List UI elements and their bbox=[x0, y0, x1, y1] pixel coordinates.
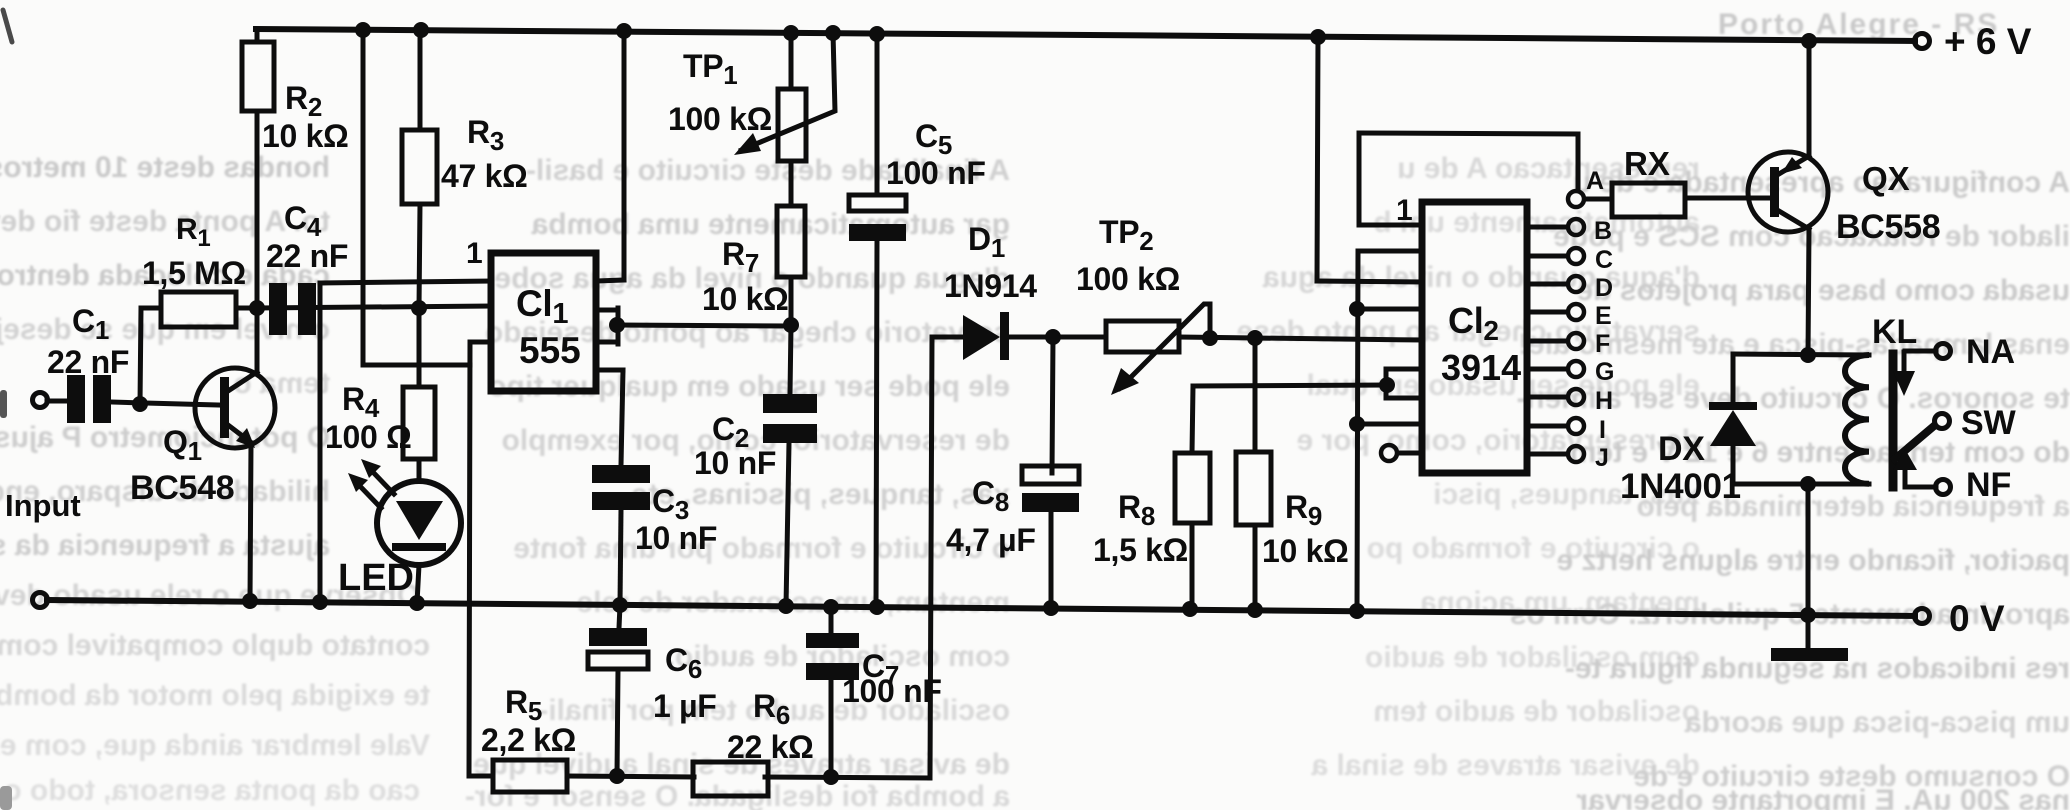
svg-text:I: I bbox=[1599, 416, 1606, 444]
svg-text:J: J bbox=[1595, 444, 1609, 472]
svg-text:1 µF: 1 µF bbox=[653, 688, 716, 724]
svg-text:1N4001: 1N4001 bbox=[1620, 467, 1741, 506]
svg-text:0 V: 0 V bbox=[1949, 598, 2005, 639]
svg-text:100 nF: 100 nF bbox=[886, 155, 986, 191]
svg-text:BC548: BC548 bbox=[130, 469, 234, 507]
svg-text:1: 1 bbox=[1396, 194, 1412, 227]
svg-text:555: 555 bbox=[519, 330, 581, 371]
svg-text:G: G bbox=[1595, 358, 1614, 386]
svg-text:C: C bbox=[1595, 246, 1613, 274]
svg-text:RX: RX bbox=[1624, 145, 1670, 182]
svg-text:22 nF: 22 nF bbox=[47, 344, 129, 380]
svg-text:B: B bbox=[1594, 217, 1612, 245]
svg-text:BC558: BC558 bbox=[1836, 208, 1940, 246]
svg-text:oscilador de audio tem: oscilador de audio tem bbox=[1373, 695, 1700, 728]
svg-text:F: F bbox=[1595, 330, 1610, 358]
svg-text:A: A bbox=[1586, 167, 1604, 195]
svg-text:10 nF: 10 nF bbox=[694, 445, 776, 481]
svg-text:usada como base para projetos: usada como base para projetos de bbox=[1577, 274, 2070, 307]
svg-text:10 kΩ: 10 kΩ bbox=[702, 281, 788, 317]
svg-text:10 kΩ: 10 kΩ bbox=[1262, 533, 1348, 569]
svg-text:100 kΩ: 100 kΩ bbox=[1076, 261, 1180, 297]
svg-text:nas 200 uA. E importante obser: nas 200 uA. E importante observar bbox=[1576, 784, 2070, 810]
svg-text:22 kΩ: 22 kΩ bbox=[727, 729, 813, 765]
svg-text:22 nF: 22 nF bbox=[266, 238, 348, 274]
svg-text:contato duplo compativel com a: contato duplo compativel com a corren bbox=[0, 629, 430, 662]
svg-text:gar automaticamente uma bomba: gar automaticamente uma bomba bbox=[531, 208, 1010, 241]
svg-text:pacitor, ficando entre alguns: pacitor, ficando entre alguns hertz e bbox=[1557, 544, 2070, 577]
svg-text:H: H bbox=[1595, 387, 1613, 415]
svg-text:1: 1 bbox=[466, 237, 482, 270]
svg-text:o circuito e formado por uma f: o circuito e formado por uma fonte bbox=[513, 532, 1010, 565]
svg-text:DX: DX bbox=[1658, 430, 1705, 468]
svg-text:3914: 3914 bbox=[1441, 347, 1521, 388]
svg-text:KL: KL bbox=[1872, 313, 1917, 351]
svg-text:E: E bbox=[1595, 302, 1612, 330]
svg-text:1,5 kΩ: 1,5 kΩ bbox=[1093, 532, 1188, 568]
svg-text:te exigida pelo motor da bomba: te exigida pelo motor da bomba. bbox=[0, 679, 430, 712]
svg-text:2,2 kΩ: 2,2 kΩ bbox=[481, 722, 576, 758]
svg-text:QX: QX bbox=[1862, 160, 1910, 197]
svg-text:10 kΩ: 10 kΩ bbox=[262, 118, 348, 154]
svg-text:LED: LED bbox=[338, 557, 414, 599]
svg-text:um pisca-pisca que acorda: um pisca-pisca que acorda bbox=[1685, 706, 2070, 739]
svg-text:100 nF: 100 nF bbox=[842, 673, 942, 709]
svg-text:1,5 MΩ: 1,5 MΩ bbox=[142, 255, 246, 291]
svg-text:D: D bbox=[1595, 274, 1613, 302]
svg-text:4,7 µF: 4,7 µF bbox=[946, 522, 1036, 558]
svg-text:NA: NA bbox=[1966, 333, 2015, 371]
svg-text:Vale lembrar ainda que, com ex: Vale lembrar ainda que, com ex bbox=[0, 729, 430, 762]
svg-text:10 nF: 10 nF bbox=[635, 520, 717, 556]
svg-text:NF: NF bbox=[1966, 466, 2011, 504]
svg-text:SW: SW bbox=[1961, 404, 2017, 442]
svg-text:cao da ponta sensora, todo o c: cao da ponta sensora, todo o cir bbox=[0, 774, 420, 807]
svg-text:+ 6 V: + 6 V bbox=[1944, 21, 2032, 62]
svg-text:hondas deste 10 metros de cump: hondas deste 10 metros de cumprimen bbox=[0, 151, 330, 184]
svg-text:Input: Input bbox=[5, 488, 81, 523]
svg-text:1N914: 1N914 bbox=[944, 268, 1037, 304]
svg-text:47 kΩ: 47 kΩ bbox=[441, 158, 527, 194]
svg-text:ajusta a frequencia da sirene.: ajusta a frequencia da sirene. bbox=[0, 529, 330, 562]
svg-text:100 Ω: 100 Ω bbox=[325, 419, 411, 455]
svg-text:to. A ponta deste fio deve ser: to. A ponta deste fio deve ser desco bbox=[0, 205, 330, 238]
svg-text:100 kΩ: 100 kΩ bbox=[668, 101, 772, 137]
